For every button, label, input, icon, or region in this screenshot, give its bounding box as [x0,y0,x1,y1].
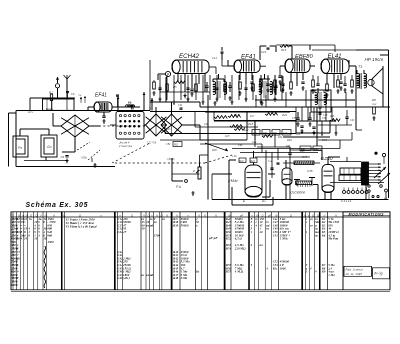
svg-text:P.U.: P.U. [176,185,182,189]
small boxed labels [252,130,260,136]
svg-text:C6: C6 [61,155,65,159]
resistor boxes R41 R42 [300,146,311,151]
capacitor C41 C42 [296,118,299,119]
svg-text:2 Gammes: 2 Gammes [118,144,133,148]
wire center verticals2 [213,112,215,121]
wire right mid h2 [318,124,352,126]
svg-text:50000: 50000 [181,223,189,227]
svg-text:P.U.: P.U. [360,178,366,182]
resistor R5 [174,81,185,84]
capacitor C6 ground [65,156,68,157]
IF transformer T1 [213,82,216,95]
svg-text:Ke: Ke [195,270,200,274]
svg-text:1 Mo: 1 Mo [328,273,335,277]
band switch contacts [116,112,144,140]
mains transformer core [362,162,369,185]
antenna coil box [43,99,75,110]
svg-text:EM4c: EM4c [228,178,238,183]
svg-text:C a: C a [268,160,272,163]
capacitor C40 chain [270,168,273,169]
svg-text:R26: R26 [296,133,301,136]
wire EBF80 pins [290,73,292,83]
svg-text:(40c): (40c) [123,276,130,280]
tuning capacitor CV2 [146,114,167,136]
coil C2 [126,105,135,107]
svg-text:R54: R54 [226,247,232,251]
wire af verticals [261,144,263,153]
table outer [11,212,390,290]
antenna arrows mid [117,96,119,111]
wire screen rail [200,106,290,108]
svg-text:1500: 1500 [154,233,161,237]
ground IF2 [260,101,263,105]
ground left loop [93,163,96,167]
svg-text:Rad. Journal: Rad. Journal [346,267,363,271]
ground R5 [183,94,186,98]
svg-text:MODIFICATIONS: MODIFICATIONS [349,213,385,217]
svg-text:∿50c: ∿50c [80,156,88,160]
wire PU [172,173,200,175]
svg-text:ud: ud [150,273,154,277]
svg-text:c 46: c 46 [232,155,237,158]
resistor R18b [330,119,340,122]
svg-text:4 M.Ω: 4 M.Ω [234,270,244,274]
capacitor C43 [345,117,348,118]
dial lamp terminals [343,191,346,194]
svg-text:960: 960 [47,233,52,237]
svg-text:mot: mot [372,102,377,106]
svg-text:6,3 a 14: 6,3 a 14 [341,199,352,203]
resistor R24 [326,84,329,91]
resistor R13 [228,115,241,118]
capacitor C12 [228,86,231,87]
wire gang leads [144,124,146,126]
resistor R11 [239,82,242,89]
wire underrail 1 [255,99,355,101]
svg-text:1800: 1800 [280,266,287,270]
IF transformer T2 [259,82,262,95]
wire B+ top [309,45,311,50]
svg-text:C2: C2 [128,101,132,105]
wire AVC bus [205,111,290,113]
svg-text:EBF80: EBF80 [295,54,313,60]
resistors R22 R23 [239,158,246,163]
svg-text:1500: 1500 [47,240,54,244]
resistor R17 [214,116,227,119]
svg-text:∿50%: ∿50% [166,157,175,161]
svg-text:R36: R36 [212,148,217,152]
capacitor C33 [301,82,304,83]
tuning capacitor CV1 [61,115,89,137]
resistor R14 [234,128,245,131]
svg-text:R52: R52 [226,237,232,241]
wire GZ40 pins [324,193,326,200]
wire mid right [296,132,330,134]
wire HT right [355,74,357,130]
wire CV1 leads [53,125,61,127]
small triode [282,168,292,185]
svg-text:Go: Go [47,145,52,149]
svg-text:R21: R21 [278,136,283,139]
wire center horizontals [150,111,296,113]
grid cap ECH42 [165,71,170,76]
svg-text:C29: C29 [261,50,267,54]
svg-text:R18: R18 [248,122,254,126]
grid cap marks [80,97,82,99]
svg-text:R23: R23 [251,161,256,163]
svg-text:R1c: R1c [273,266,279,270]
svg-text:R16: R16 [281,48,287,52]
svg-text:N: N [204,214,206,218]
svg-text:R46: R46 [286,145,291,148]
wire ECH42 pins [177,74,179,83]
svg-text:C51: C51 [273,233,279,237]
svg-text:10: 10 [24,237,28,241]
svg-text:Po: Po [18,146,22,150]
aerial symbol [66,79,68,98]
svg-text:EL41: EL41 [328,54,342,60]
tube EF41 left [94,102,112,112]
svg-text:C45: C45 [307,169,313,173]
svg-text:10: 10 [34,237,38,241]
capacitor C8 [190,89,193,90]
tube ECH42 [172,60,209,74]
modifications sign box [373,268,390,279]
svg-text:R52: R52 [174,144,179,146]
svg-text:Mo Pou: Mo Pou [327,237,338,241]
table header line [11,216,390,218]
svg-text:47: 47 [122,230,127,234]
svg-text:R57: R57 [226,270,232,274]
table column lines [12,212,14,290]
page edge frame [4,28,396,298]
svg-text:R14: R14 [244,129,249,132]
svg-text:40: 40 [259,230,264,234]
wire detector [246,112,248,129]
capacitor C4 [102,116,105,117]
wire right mid mesh [295,107,297,121]
svg-text:Schéma Ex. 305: Schéma Ex. 305 [26,202,89,209]
wire top right rail [276,44,335,46]
svg-text:Ω: Ω [36,214,38,218]
svg-text:6,5 Ω: 6,5 Ω [235,237,243,241]
svg-text:T3: T3 [358,65,362,69]
resistor R18 [230,125,243,128]
svg-text:C23: C23 [166,128,171,131]
svg-text:W+╳g: W+╳g [374,272,383,276]
wire EM4 enclosure box [231,187,233,205]
svg-text:RP: RP [372,98,376,102]
capacitor C left of EBF80 [278,76,281,77]
resistor R19 [290,82,293,89]
wire underrail 3 [255,95,257,107]
capacitor C29 [267,48,270,49]
wire box links [19,129,21,136]
table second bottom line [11,290,390,292]
arrow R36 [205,143,228,151]
svg-text:9000: 9000 [11,283,18,287]
wire center drops [149,60,151,111]
resistor capacitor row under tubes [260,80,263,87]
svg-text:N: N [156,214,158,218]
tube EM4 [245,165,262,197]
capacitor C6a [66,91,69,92]
svg-text:R15: R15 [225,135,230,138]
antenna arrow with circle [57,78,59,83]
wire underrail 2 [200,106,390,108]
svg-text:C35: C35 [292,117,297,120]
speaker HP [372,68,383,94]
svg-text:N: N [215,214,217,218]
wire EM4 [229,159,236,161]
svg-text:R22: R22 [240,161,245,163]
wire osc [285,160,287,168]
resistor R16 [280,45,289,48]
svg-text:C31: C31 [178,104,183,107]
svg-text:C13: C13 [212,56,217,60]
tube GZ40 [322,165,334,193]
svg-text:μF/μF: μF/μF [208,236,218,240]
svg-text:R40: R40 [287,138,292,142]
svg-text:1 500c: 1 500c [280,237,289,241]
tube EBF80 [285,59,310,73]
svg-text:Ω: Ω [131,214,133,218]
svg-text:T3 Filam 6,3 a Bi Equal: T3 Filam 6,3 a Bi Equal [65,225,96,229]
svg-text:S.8m: S.8m [181,276,188,280]
svg-text:R39: R39 [173,223,179,227]
svg-text:EF41: EF41 [95,93,107,99]
capacitor C14 [250,82,253,83]
wire antenna input [30,97,75,99]
svg-text:R48: R48 [173,276,179,280]
resistor RP [373,107,376,114]
svg-text:no: no [260,243,264,247]
dashed mechanical link [90,125,147,127]
coil box Go [41,135,57,157]
AF transformer can [311,90,331,112]
capacitor C38 [339,82,342,83]
svg-text:C43: C43 [350,119,355,122]
mains selector switch [374,152,377,155]
coil box Po [13,136,28,157]
svg-text:EF41: EF41 [241,53,256,60]
modifications note box [344,266,372,276]
potentiometer P [198,167,201,179]
svg-text:C36: C36 [322,117,327,120]
svg-text:C52: C52 [166,143,171,146]
svg-text:Ω: Ω [290,214,292,218]
tube EF41 IF amp [234,60,260,73]
svg-text:R45: R45 [300,150,305,153]
svg-text:R20: R20 [282,113,288,117]
svg-text:C26: C26 [204,123,209,126]
wire left loop [16,110,150,112]
mains transformer windings [340,168,361,174]
svg-text:C46: C46 [238,144,243,147]
svg-text:20. 11. 1948: 20. 11. 1948 [345,272,363,276]
svg-text:TM: TM [78,95,81,97]
svg-text:vers: vers [28,110,34,114]
resistor hum box [296,181,312,185]
svg-text:N: N [335,214,337,218]
resistor R20 [265,113,278,116]
capacitor C11 [205,86,208,87]
svg-text:K6: K6 [321,233,326,237]
wire bottom bus [212,199,389,201]
svg-text:R18: R18 [330,115,335,118]
svg-text:Jeu de 4: Jeu de 4 [119,141,130,145]
svg-text:HP 19cm: HP 19cm [365,57,384,62]
svg-text:ECH42: ECH42 [179,53,200,60]
svg-text:R17: R17 [250,115,255,118]
svg-text:tu: tu [315,233,318,237]
svg-text:10: 10 [142,227,146,231]
ground pair right mid [320,131,323,135]
svg-text:C6: C6 [71,92,75,96]
svg-text:C44: C44 [252,141,257,144]
svg-text:N: N [198,214,200,218]
svg-text:Oscillation: Oscillation [291,190,306,194]
svg-text:Bobin: Bobin [46,107,53,111]
wire AVC drop [207,140,209,155]
modifications box [343,211,390,213]
wire EF41 leads [88,106,94,108]
svg-text:P: P [193,169,195,173]
wire EL41 pins [326,74,328,85]
wire center component mesh [159,75,161,100]
svg-text:220 MΩ: 220 MΩ [234,247,246,251]
wire right border [388,50,390,198]
mains transformer taps [369,163,382,165]
svg-text:va: va [310,217,313,221]
svg-text:K9: K9 [321,270,326,274]
wire transformer top [330,161,361,163]
tuning capacitor CV3 [161,114,182,136]
svg-text:pF: pF [267,214,271,218]
tube EL41 [321,59,349,74]
svg-text:20: 20 [16,256,21,260]
capacitor C16 [274,86,277,87]
svg-text:N: N [166,214,168,218]
wire af horizontals [200,143,262,145]
ground IF1 [213,101,216,105]
wire EF41b pins [239,73,241,81]
resistor hum top [294,161,314,165]
resistor R21 [262,135,273,138]
resistor R4 [153,82,156,89]
